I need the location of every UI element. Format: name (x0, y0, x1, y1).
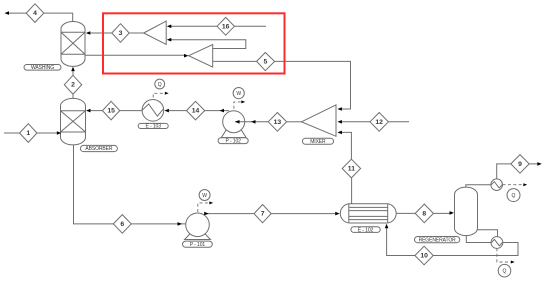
wire E-102 to node 8 to regenerator (396, 212, 449, 214)
wire node 11 to mixer bottom (342, 132, 352, 159)
compressor triangle T1 (144, 21, 167, 44)
svg-text:Q: Q (158, 82, 162, 88)
wire P-101 to node 7 to E-102 (205, 213, 336, 215)
dashed work line P-102 (234, 100, 245, 108)
arrowhead into washing bottom (71, 67, 75, 72)
red highlight rectangle (103, 13, 285, 73)
label MIXER (302, 138, 333, 145)
arrowhead on pump outlet line (220, 109, 225, 113)
wire reboiler to node 10 to E-102 bottom (387, 228, 518, 255)
instrument Q at E-103 (155, 79, 165, 89)
arrowhead into E-102 left (335, 212, 340, 216)
wire absorber bottom to node 6 to pump P-101 (74, 145, 197, 224)
node 6 (113, 215, 131, 234)
svg-text:MIXER: MIXER (310, 139, 326, 145)
node 14 (187, 101, 205, 120)
washing column vessel (61, 22, 85, 67)
label ABSORBER (80, 145, 117, 152)
arrowhead into mixer middle (337, 120, 342, 124)
label E-102 (351, 227, 380, 234)
node 13 (268, 113, 286, 132)
arrowhead into mixer top (337, 107, 342, 111)
svg-text:Q: Q (503, 269, 507, 275)
svg-text:10: 10 (420, 253, 428, 260)
arrowhead into washing right (86, 31, 91, 35)
reboiler cooler bottom (491, 237, 503, 249)
label E-103 (138, 123, 168, 129)
svg-text:6: 6 (120, 221, 124, 228)
mixer triangle (302, 105, 337, 136)
wire node 16 stub right (234, 25, 266, 27)
svg-text:P - 102: P - 102 (226, 139, 242, 145)
node 1 (20, 124, 38, 143)
node 15 (102, 101, 119, 120)
label REGENERATOR (415, 237, 460, 244)
heat exchanger E-102 (340, 204, 396, 223)
wire absorber top to node 2 to washing bottom (72, 71, 74, 99)
wire regenerator bottom to reboiler (466, 235, 491, 243)
wire loop T2 top to T1 bottom (171, 40, 246, 49)
node 9 (511, 155, 529, 174)
svg-text:1: 1 (26, 130, 30, 137)
svg-text:REGENERATOR: REGENERATOR (419, 237, 457, 243)
arrowhead after P-101 (204, 212, 209, 216)
pump P-101 (185, 213, 211, 240)
arrowhead stream 4 out (5, 11, 10, 15)
svg-text:15: 15 (107, 108, 115, 115)
svg-text:16: 16 (222, 23, 230, 30)
wire E-103 to node 14 to pump P-102 (169, 110, 229, 112)
label P-102 (218, 138, 248, 145)
arrowhead into E-102 bottom (385, 224, 389, 229)
node 5 (257, 53, 275, 71)
node 16 (217, 17, 234, 35)
node 3 (112, 24, 129, 43)
arrowhead stream 9 out (537, 162, 542, 166)
wire node 11 to E-102 top (351, 178, 353, 204)
svg-text:P - 101: P - 101 (190, 242, 206, 248)
svg-text:9: 9 (518, 161, 522, 168)
node 7 (254, 205, 271, 223)
regenerator vessel (455, 187, 478, 236)
svg-text:11: 11 (348, 166, 355, 173)
arrowhead into T2 apex (184, 54, 189, 58)
dashed duty line E-103 (153, 92, 169, 98)
wire regenerator top to condenser (466, 185, 491, 188)
heat exchanger E-103 (142, 100, 164, 122)
node 10 (415, 246, 433, 265)
pump P-102 (221, 111, 246, 138)
wire stream 1 into absorber (4, 132, 57, 134)
dashed duty line condenser (503, 183, 528, 186)
compressor triangle T2 (189, 45, 213, 68)
svg-text:14: 14 (192, 108, 200, 115)
svg-text:4: 4 (33, 10, 37, 17)
wire stream 4 (washing top to left output) (8, 13, 73, 22)
svg-text:2: 2 (71, 82, 75, 89)
wire regenerator right to reboiler top (478, 230, 498, 237)
svg-text:Q: Q (512, 193, 516, 199)
arrowhead at pump center (235, 120, 240, 124)
wire T1 to node 16 (171, 25, 218, 27)
svg-text:13: 13 (274, 119, 282, 126)
svg-text:WASHING: WASHING (31, 65, 54, 71)
absorber column vessel (61, 98, 86, 145)
node 4 (26, 4, 44, 23)
arrowhead before P-101 (178, 222, 183, 226)
instrument W at P-101 (199, 190, 210, 201)
svg-text:5: 5 (264, 58, 268, 65)
arrowhead at P-101 center (192, 222, 197, 226)
wire condenser to node 9 (497, 164, 538, 179)
node 12 (370, 113, 388, 132)
svg-text:3: 3 (119, 30, 123, 37)
wire node 13 to mixer apex (287, 121, 302, 123)
node 8 (415, 204, 433, 223)
svg-text:E - 102: E - 102 (358, 227, 374, 233)
svg-text:7: 7 (261, 211, 265, 218)
arrowhead into absorber left (57, 131, 62, 135)
wire washing right to T2 apex (85, 54, 184, 56)
arrowhead into T1 top (167, 25, 172, 29)
svg-text:12: 12 (375, 119, 383, 126)
wire node 12 to mixer (342, 121, 409, 123)
instrument Q bottom (498, 264, 511, 277)
node 2 (64, 75, 81, 94)
condenser cooler top (491, 179, 503, 191)
label WASHING (24, 65, 61, 71)
arrowhead into T1 bottom (167, 38, 172, 42)
svg-text:W: W (202, 193, 207, 199)
wire absorber right to node 15 (90, 110, 142, 112)
arrowhead into mixer bottom (337, 131, 342, 135)
wire node 13 to pump P-102 (235, 121, 268, 123)
wire node3 to washing (arrow into washing) (90, 32, 144, 34)
arrowhead into regenerator (450, 211, 455, 215)
svg-text:ABSORBER: ABSORBER (85, 146, 112, 152)
instrument W at P-102 (233, 88, 244, 99)
wire T2 to node 5 to mixer top (213, 61, 351, 109)
svg-text:8: 8 (422, 210, 426, 217)
svg-text:E - 103: E - 103 (145, 124, 161, 130)
dashed duty line reboiler (497, 248, 515, 263)
svg-text:W: W (236, 91, 241, 97)
arrowhead on line into pump (251, 120, 256, 124)
dashed work line P-101 (198, 201, 213, 212)
instrument Q top (507, 189, 520, 202)
arrowhead into absorber right (86, 109, 91, 113)
label P-101 (183, 241, 213, 248)
node 11 (342, 159, 360, 178)
arrowhead into E-103 right (164, 109, 169, 113)
